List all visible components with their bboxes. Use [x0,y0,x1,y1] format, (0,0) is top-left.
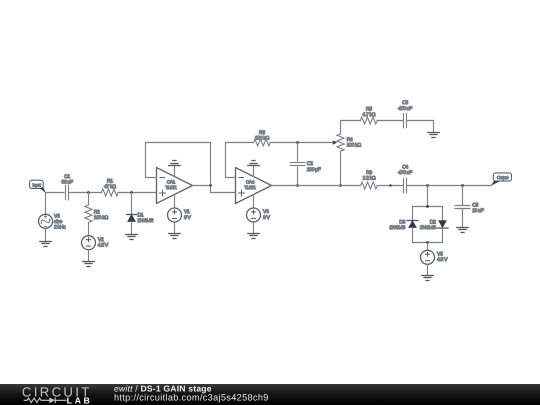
junction OA1 output [209,184,212,187]
ground under V2 [83,262,94,267]
junction R4/output line [339,184,342,187]
resistor R6 [361,182,378,189]
capacitor C3 [403,113,405,128]
capacitor C2 [290,162,305,164]
junction C2/output line [296,184,299,187]
capacitor C4 [403,178,405,193]
wire C2 bottom stub [297,167,299,186]
wire C1 to R1 [69,192,102,194]
wire R2 stub [88,193,90,205]
CircuitLab logo resistor-diode squiggle [24,398,67,404]
wire OA4 V+ stub [253,166,255,177]
resistor R5 [360,117,377,124]
wire V6 to ground [45,228,47,241]
junction C1/R2 [87,191,90,194]
wire R2 to V2 [88,223,90,236]
wire OA1 feedback loop [146,143,211,186]
ground under V6 [40,242,51,247]
wire input to C1 [46,192,65,194]
source V5 circle [421,250,435,264]
wire V5 to ground [427,264,429,275]
capacitor C5 [455,205,470,207]
wire OA4 V- stub [253,195,255,208]
flipped ground above OA4 [248,161,259,166]
svg-text:Input: Input [32,182,41,187]
wire OA1 V- stub [174,195,176,208]
potentiometer R4 body [337,134,344,151]
wire R1 to OA1 [118,192,156,194]
diode D1 [127,214,137,216]
wire R5 to C3 [377,120,403,122]
wire box to V5 [427,243,429,251]
source V2 circle [82,236,96,250]
wire R4 top to R5 [341,121,361,134]
diode D3 [407,220,418,222]
wire D1 to ground [131,222,133,235]
ground right of C3 [428,133,439,138]
ground under V1 [169,234,180,239]
resistor R1 [101,189,118,196]
capacitor C1 [65,185,67,200]
svg-text:http://circuitlab.com/c3aj5s42: http://circuitlab.com/c3aj5s4258ch9 [114,392,269,402]
source V4 circle [247,208,261,222]
wire R3 to wiper [270,142,334,144]
wire C5 top stub [462,186,464,206]
ground under C5 [457,228,468,233]
wire V4 to ground [253,222,255,234]
source V6 circle [39,214,53,228]
wire to diode box [427,186,429,207]
op-amp OA1 [157,168,193,204]
junction diode box top [426,205,429,208]
svg-text:Output: Output [497,175,509,180]
svg-text:LAB: LAB [67,395,91,405]
junction R6/C4 net dot [389,184,391,186]
junction R3/C2 [296,141,299,144]
wire diode box bottom [413,228,443,243]
source V1 circle [168,208,182,222]
op-amp OA4 [236,168,272,204]
wire C3 to ground [407,121,434,133]
flipped ground above OA1 [169,161,180,166]
wire V1 to ground [174,222,176,234]
svg-text:TL071: TL071 [165,185,177,190]
ground under V5 [422,276,433,281]
junction C5 [461,184,464,187]
wire V2 to ground [88,250,90,262]
wire input down to V6 [45,193,47,215]
junction R1/D1 [130,191,133,194]
svg-text:TL071: TL071 [244,185,256,190]
resistor R2 [85,205,92,222]
wire diode box top [413,207,443,221]
svg-text:OA1: OA1 [167,179,176,184]
output flag [493,173,511,181]
wire C5 to ground [462,209,464,228]
wire C4 to output flag [407,185,492,187]
svg-text:OA4: OA4 [246,179,255,184]
ground under D1 [126,235,137,240]
wire OA1 output [193,185,211,187]
wire OA4 output line [272,185,360,187]
wire OA1 out to OA4 + [211,186,236,193]
wire R4 bottom [340,151,342,185]
wire OA4 - input up [226,143,254,178]
wire D1 stub [131,193,133,215]
wire R6 to C4 [377,185,403,187]
wire C2 top stub [297,143,299,162]
potentiometer R4 wiper arrow [333,140,337,144]
resistor R3 [254,139,271,146]
input flag [30,180,44,188]
wire OA1 V+ stub [174,166,176,177]
source V6 sine symbol [40,216,51,227]
diode D2 [439,221,446,228]
junction diode box bottom [426,241,429,244]
junction diode clamp [426,184,429,187]
ground under V4 [248,234,259,239]
